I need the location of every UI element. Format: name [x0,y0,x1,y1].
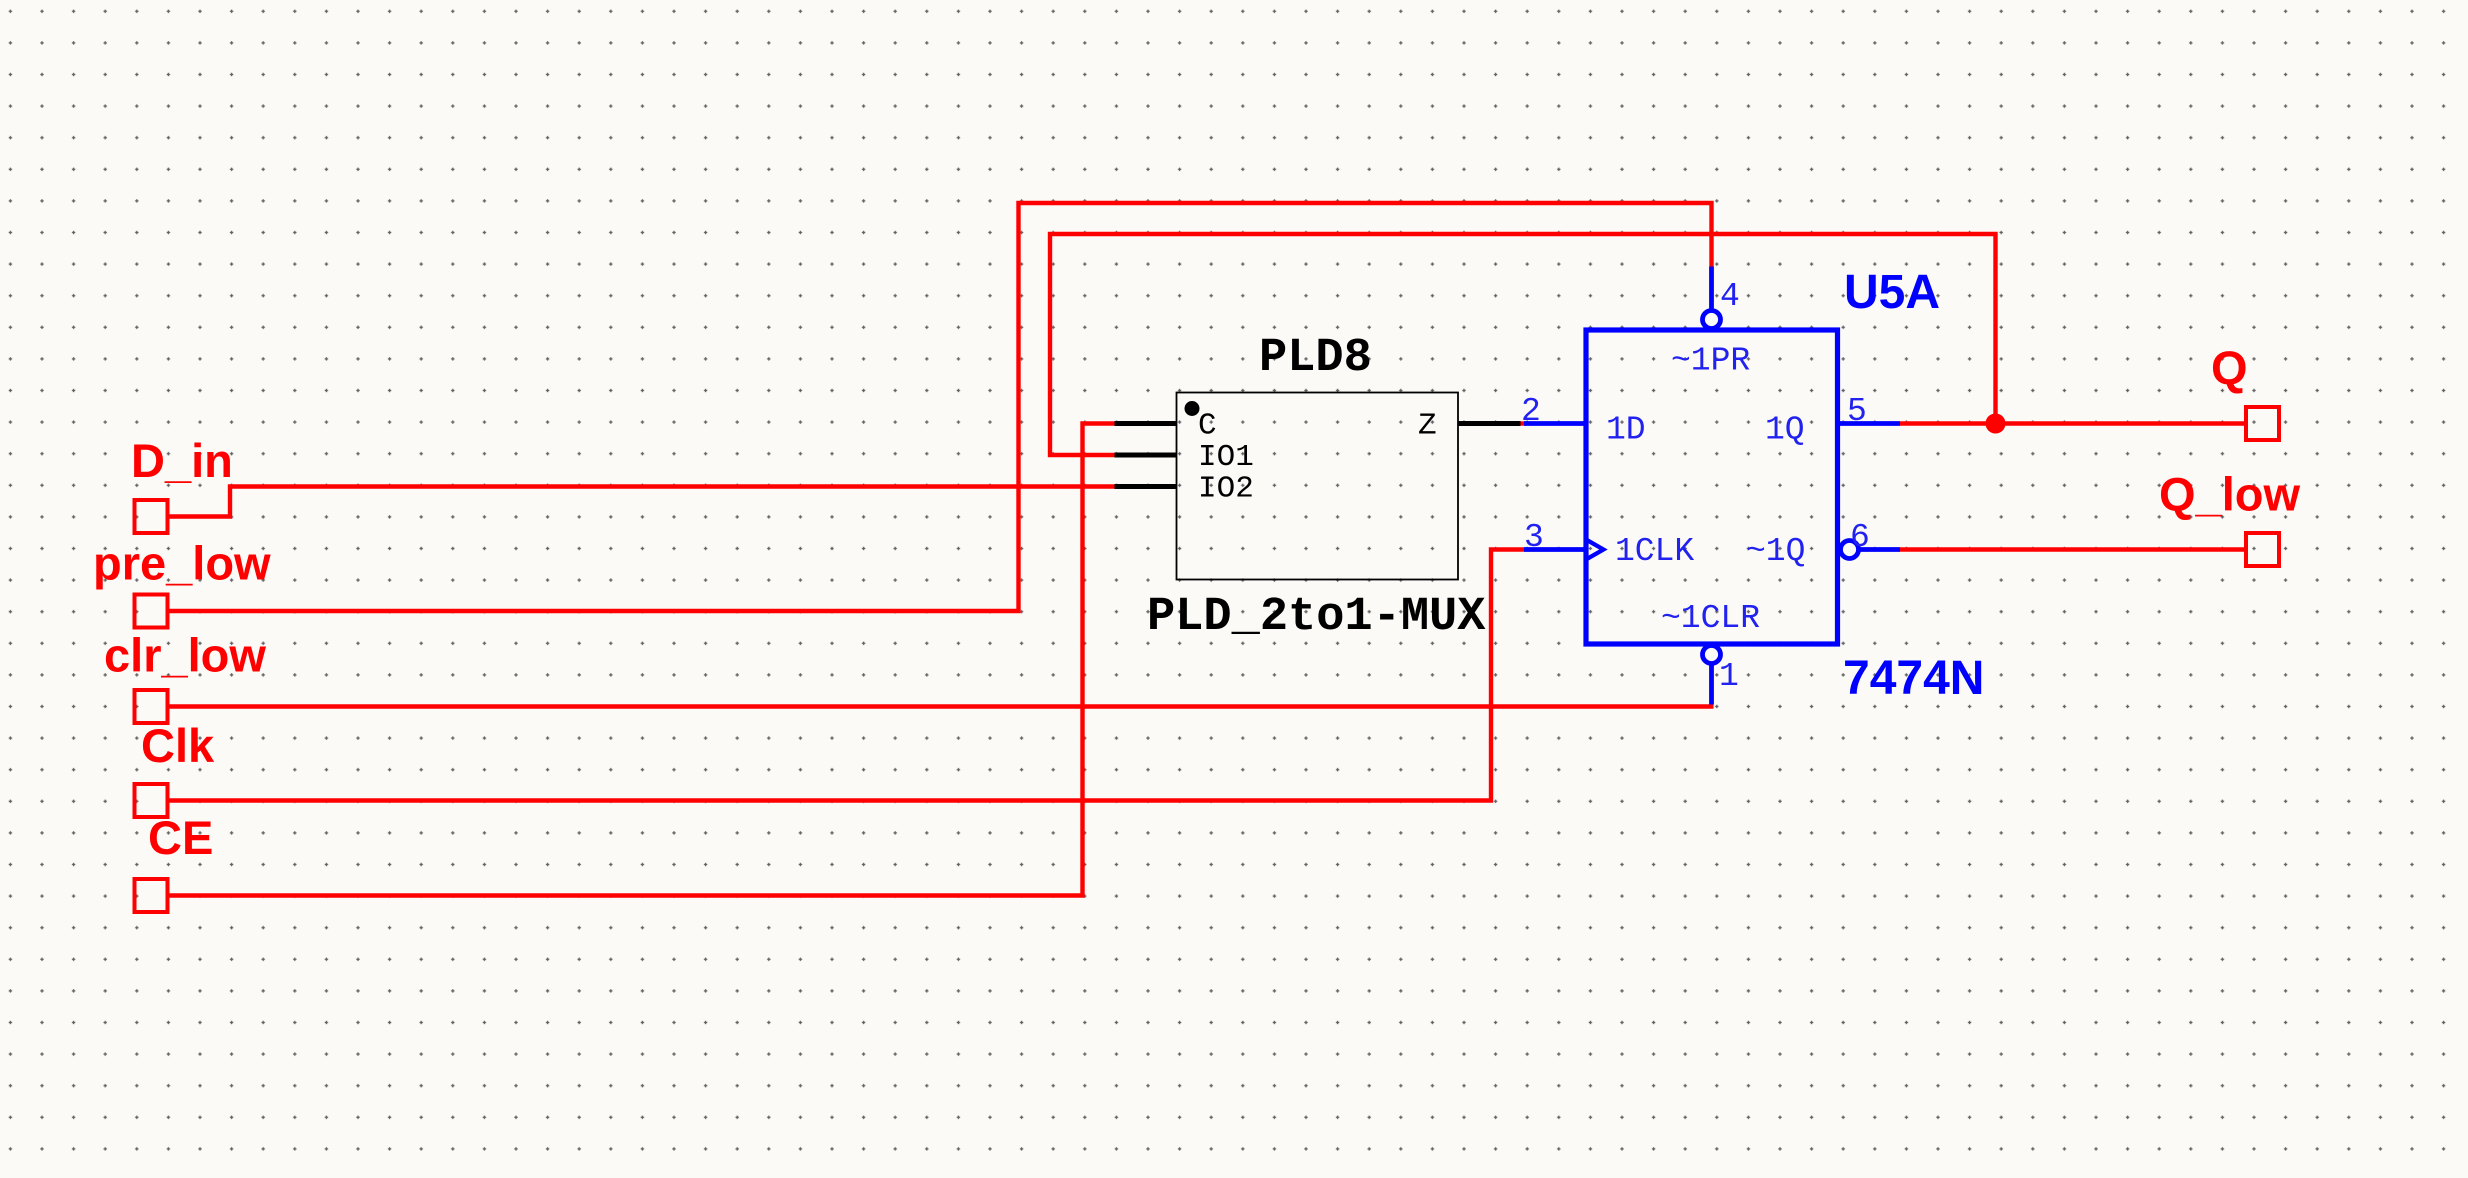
PLD pin IO2 stub [1115,484,1177,489]
port Clk [135,784,168,817]
PLD pin Z stub [1458,421,1521,426]
svg-text:Clk: Clk [141,719,215,772]
port pre_low [135,595,168,628]
svg-text:C: C [1198,409,1217,444]
pin 4 bubble [1703,311,1721,329]
port Q [2246,407,2279,440]
svg-text:PLD8: PLD8 [1259,332,1372,385]
PLD pin C stub [1115,421,1177,426]
port CE [135,879,168,912]
svg-text:5: 5 [1847,393,1867,430]
svg-text:1D: 1D [1606,412,1646,449]
svg-text:~1Q: ~1Q [1746,533,1805,570]
pin 6 blue stub [1860,547,1900,552]
svg-text:pre_low: pre_low [93,537,271,590]
svg-text:~1PR: ~1PR [1671,343,1750,380]
pin 2 blue stub [1524,421,1586,426]
svg-text:1Q: 1Q [1765,412,1805,449]
svg-text:2: 2 [1521,393,1541,430]
svg-text:Q_low: Q_low [2159,468,2300,521]
svg-text:4: 4 [1720,278,1740,315]
svg-text:clr_low: clr_low [104,629,266,682]
wire net Q_low: pin 6 to port Q_low [1900,547,2246,551]
svg-text:Z: Z [1418,409,1437,444]
svg-text:1CLK: 1CLK [1615,533,1694,570]
pin 3 blue stub [1524,547,1586,552]
svg-text:D_in: D_in [131,434,233,487]
svg-text:IO1: IO1 [1198,440,1254,475]
pin 1 bubble [1703,646,1721,664]
wire net pre_low: port to ~1PR pin 4 [168,203,1712,611]
wire net Q: pin 5 to port Q [1900,421,2246,425]
svg-text:PLD_2to1-MUX: PLD_2to1-MUX [1147,591,1486,644]
svg-text:6: 6 [1850,519,1870,556]
pin 4 blue stub [1709,267,1714,310]
svg-text:IO2: IO2 [1198,472,1254,507]
wire net CE: port to C [168,424,1117,896]
pin 1 blue stub [1709,666,1714,705]
PLD U? box [1177,393,1459,580]
op 7474N U5A box [1586,330,1838,644]
svg-text:~1CLR: ~1CLR [1661,600,1760,637]
svg-text:3: 3 [1524,519,1544,556]
wire net Clk: port to pin 3 [168,550,1525,801]
svg-text:Q: Q [2211,341,2248,394]
pin 6 bubble [1841,541,1859,559]
pin 5 blue stub [1838,421,1901,426]
svg-text:7474N: 7474N [1843,652,1984,705]
svg-text:CE: CE [148,811,213,864]
svg-text:U5A: U5A [1844,266,1940,319]
wire net feedback: IO1 to 1Q junction [1050,234,1996,455]
PLD pin IO1 stub [1115,453,1177,458]
port clr_low [135,690,168,723]
PLD orientation dot [1185,401,1200,416]
wire net Z to 1D [1519,421,1526,425]
clock triangle [1586,540,1604,560]
wire net D_in: port to IO2 [168,487,1117,517]
junction node Q [1986,414,2006,434]
port D_in [135,500,168,533]
wire net clr_low: port to pin 1 [168,704,1714,708]
svg-text:1: 1 [1719,658,1739,695]
port Q_low [2246,533,2279,566]
